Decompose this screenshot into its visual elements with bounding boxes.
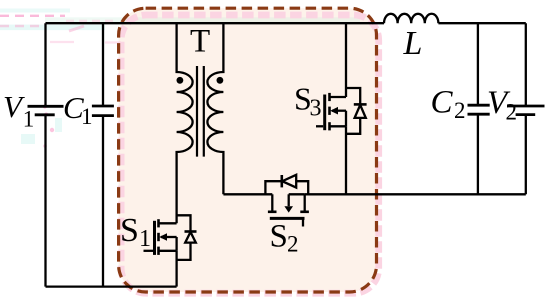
capacitor C2 wire top xyxy=(477,23,479,105)
V2 source wire top xyxy=(525,23,527,106)
S3 drain lead xyxy=(330,96,347,98)
jpeg artifact speckles xyxy=(21,42,121,148)
S2 body diode branch xyxy=(265,181,308,194)
S2 bulk stub xyxy=(288,194,290,206)
S2 gate lead xyxy=(302,218,304,226)
C2 top plate xyxy=(468,104,490,107)
V1 short plate xyxy=(35,113,55,116)
svg-text:1: 1 xyxy=(139,226,151,252)
middle wire S2 to right xyxy=(305,193,526,195)
inductor L xyxy=(384,14,438,23)
transformer core lines xyxy=(197,66,204,157)
S3 diode cathode bar xyxy=(354,103,367,106)
V2 wire bottom xyxy=(525,115,527,195)
V1 long plate xyxy=(28,105,64,108)
C1 top plate xyxy=(92,105,114,108)
S3 source lead xyxy=(330,125,347,127)
S2 arrow xyxy=(284,206,293,212)
pink artifact streak below rail xyxy=(69,26,84,31)
S3 bulk-source tie xyxy=(345,111,347,127)
S3 diode triangle xyxy=(355,105,366,118)
S3 drain plate xyxy=(328,93,331,101)
S1 bulk lead xyxy=(161,236,177,238)
S2 diode triangle xyxy=(282,175,296,188)
S1 body diode branch xyxy=(177,215,191,260)
brown dashed rounded box xyxy=(119,8,377,292)
S2 drain plate xyxy=(268,211,277,214)
bottom rail xyxy=(46,285,177,287)
top rail left segment xyxy=(46,22,385,24)
middle wire from secondary to S2 drain xyxy=(223,193,272,195)
S3 gate lead xyxy=(316,125,323,127)
S3 bulk lead xyxy=(332,110,346,112)
mint artifact band above top rail xyxy=(45,17,360,22)
S1 diode triangle xyxy=(185,232,196,243)
S2 gate bar xyxy=(270,217,305,220)
pink artifact dashed line upper xyxy=(0,15,65,17)
svg-text:1: 1 xyxy=(23,106,35,131)
C2 bottom plate xyxy=(468,113,490,116)
dashed box interior fill xyxy=(119,8,377,292)
S3 body diode branch xyxy=(346,88,360,134)
S1 source plate xyxy=(157,247,160,255)
svg-text:S: S xyxy=(270,218,288,254)
svg-text:T: T xyxy=(190,24,210,60)
S3 gate bar xyxy=(323,95,326,131)
S1 bulk plate xyxy=(157,233,160,241)
pink halo dashed rounded box xyxy=(121,15,379,293)
svg-text:2: 2 xyxy=(287,232,299,257)
transformer secondary winding xyxy=(207,23,223,194)
svg-text:1: 1 xyxy=(81,104,93,129)
C1 bottom plate xyxy=(92,114,114,117)
S1 source lead xyxy=(159,250,177,252)
S1 bulk-source tie xyxy=(175,237,177,251)
primary winding dot xyxy=(177,77,184,84)
S1 drain plate xyxy=(157,219,160,227)
S2 diode cathode bar xyxy=(280,175,283,187)
V2 long plate xyxy=(507,105,545,108)
svg-text:S: S xyxy=(120,212,139,249)
V1 branch wire bottom xyxy=(44,115,46,287)
mosfet S3 drain wire xyxy=(345,23,347,97)
S1 gate lead xyxy=(144,250,154,252)
S1 source wire down xyxy=(175,251,177,287)
S1 arrow xyxy=(159,233,167,241)
S1 drain lead xyxy=(159,222,177,224)
cyan artifact band below rail left xyxy=(0,25,105,31)
C2 wire bottom xyxy=(477,114,479,194)
S3 arrow xyxy=(330,107,338,115)
svg-text:L: L xyxy=(403,25,423,62)
S2 source plate xyxy=(300,211,309,214)
S1 diode cathode bar xyxy=(185,230,197,233)
transformer primary winding xyxy=(177,23,193,223)
S2 drain stub xyxy=(271,194,273,212)
S2 source stub xyxy=(304,194,306,212)
pink artifact dashed line mid xyxy=(66,20,117,22)
V2 short plate xyxy=(516,113,536,116)
svg-text:2: 2 xyxy=(506,100,518,125)
C1 wire bottom xyxy=(102,116,104,287)
svg-text:C: C xyxy=(431,85,454,121)
cyan artifact band top-left xyxy=(0,9,70,13)
capacitor C1 wire top xyxy=(102,23,104,106)
S3 source plate xyxy=(328,122,331,130)
S3 source wire down xyxy=(345,126,347,194)
secondary winding dot xyxy=(217,77,224,84)
V1 source branch wire top xyxy=(44,23,46,106)
mosfet S1 gate bar xyxy=(153,221,156,255)
S3 bulk plate xyxy=(328,107,331,115)
pink artifact dashed line lower xyxy=(0,25,46,27)
S2 bulk-source tie xyxy=(289,193,305,195)
svg-text:2: 2 xyxy=(454,98,466,123)
svg-text:V: V xyxy=(3,89,25,124)
svg-text:3: 3 xyxy=(310,96,322,122)
top rail right segment xyxy=(438,22,525,24)
